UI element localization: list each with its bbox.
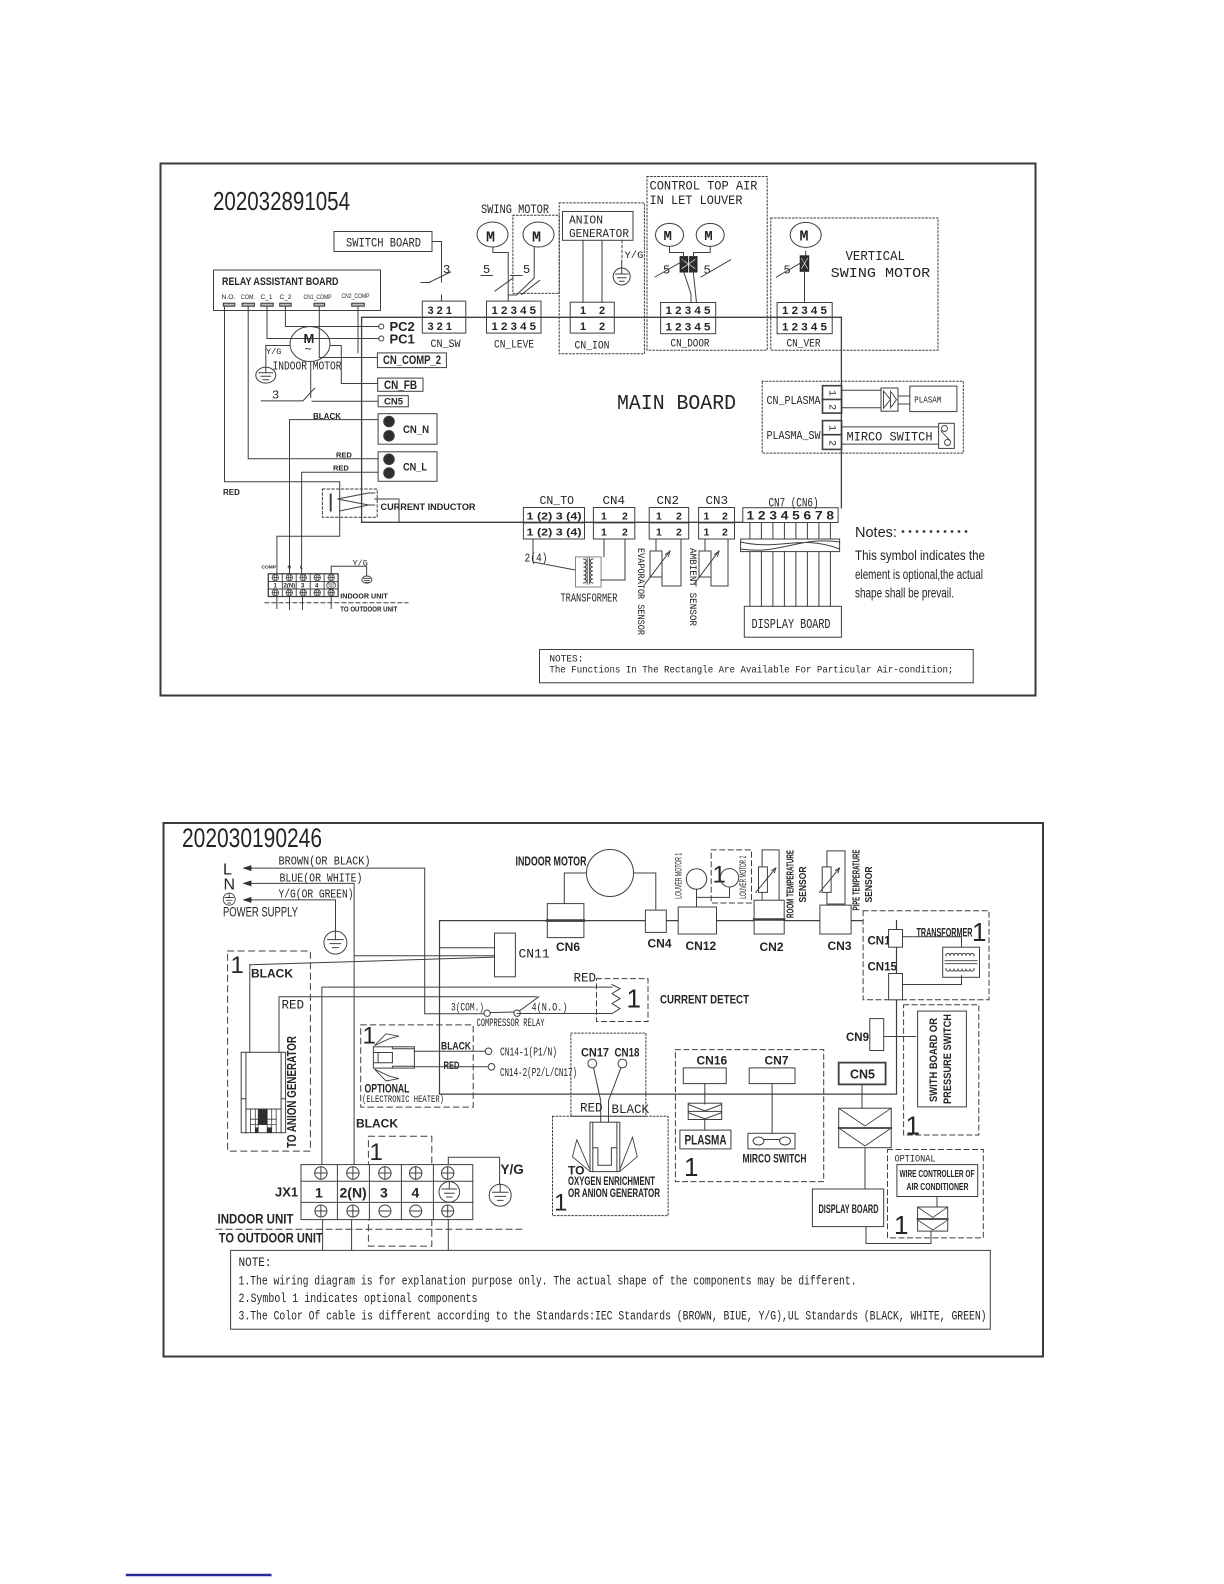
svg-text:AMBIENT SENSOR: AMBIENT SENSOR xyxy=(686,548,698,627)
wire C_1 to PC1 xyxy=(267,306,379,338)
wires louver motors xyxy=(670,247,711,303)
svg-text:DISPLAY BOARD: DISPLAY BOARD xyxy=(752,617,831,633)
svg-text:N: N xyxy=(288,565,292,571)
louver motor 2 optional (dashed) xyxy=(711,850,751,903)
svg-text:N: N xyxy=(224,877,236,894)
wire controller group (dashed) xyxy=(888,1150,984,1238)
svg-text:CN_L: CN_L xyxy=(403,462,427,474)
svg-text:POWER SUPPLY: POWER SUPPLY xyxy=(223,905,298,920)
svg-text:CN2: CN2 xyxy=(657,494,680,508)
svg-text:RED: RED xyxy=(282,999,305,1013)
wire L brown xyxy=(244,868,484,1014)
svg-text:Y/G: Y/G xyxy=(501,1162,524,1177)
svg-text:CN3: CN3 xyxy=(706,494,729,508)
plasma group (dotted) xyxy=(762,381,963,453)
notes box bottom xyxy=(540,650,974,683)
svg-text:COMPRESSOR RELAY: COMPRESSOR RELAY xyxy=(477,1018,545,1030)
svg-text:1: 1 xyxy=(656,527,662,539)
svg-text:M: M xyxy=(532,230,541,247)
svg-text:RED: RED xyxy=(336,451,352,460)
svg-text:2: 2 xyxy=(676,511,682,523)
svg-text:CN1_COMP: CN1_COMP xyxy=(304,294,332,301)
svg-text:TO OUTDOOR UNIT: TO OUTDOOR UNIT xyxy=(340,605,397,614)
anion connector plug xyxy=(241,1052,285,1132)
svg-text:OR ANION GENERATOR: OR ANION GENERATOR xyxy=(568,1186,660,1200)
svg-text:2: 2 xyxy=(722,511,728,523)
main bus horizontal xyxy=(440,920,897,922)
svg-text:CN14-1(P1/N): CN14-1(P1/N) xyxy=(500,1046,557,1060)
wire motor right to CN4 xyxy=(634,873,656,910)
dashed indoor/outdoor separator xyxy=(265,602,408,604)
svg-text:SENSOR: SENSOR xyxy=(798,866,809,903)
svg-text:1 2 3 4 5: 1 2 3 4 5 xyxy=(782,322,827,334)
svg-text:1: 1 xyxy=(231,952,244,979)
wires below jx1 xyxy=(323,1220,449,1251)
wire heater black to CN14-1 xyxy=(414,1050,485,1052)
ground indoor motor xyxy=(256,346,276,384)
vertical swing motor group (dotted) xyxy=(771,218,938,350)
svg-text:SWITCH BOARD: SWITCH BOARD xyxy=(346,236,421,251)
svg-text:TRANSFORMER: TRANSFORMER xyxy=(561,593,618,606)
svg-text:GENERATOR: GENERATOR xyxy=(569,228,629,241)
node PC1 xyxy=(379,336,384,341)
svg-text:INDOOR UNIT: INDOOR UNIT xyxy=(218,1212,295,1227)
svg-text:4: 4 xyxy=(412,1185,420,1201)
svg-text:TRANSFORMER: TRANSFORMER xyxy=(917,928,973,940)
wire CN2_COMP down xyxy=(357,306,359,353)
svg-text:INDOOR MOTOR: INDOOR MOTOR xyxy=(273,361,342,374)
connector CN_ION xyxy=(570,302,614,352)
wire controller stem xyxy=(936,1197,938,1208)
wire N.O. down xyxy=(225,306,340,574)
svg-text:CN3: CN3 xyxy=(828,939,852,953)
svg-text:1: 1 xyxy=(826,425,837,431)
wires CN17 CN18 down xyxy=(594,1068,622,1122)
svg-text:PLASAM: PLASAM xyxy=(914,395,941,406)
wire black anion xyxy=(249,965,251,1053)
svg-text:CURRENT DETECT: CURRENT DETECT xyxy=(660,993,750,1007)
svg-text:1: 1 xyxy=(580,305,586,317)
relay assistant board U2 xyxy=(214,270,381,311)
current detect box (dashed) xyxy=(597,979,649,1022)
svg-text:3: 3 xyxy=(443,263,450,277)
svg-text:LOUVER MOTOR 2: LOUVER MOTOR 2 xyxy=(738,856,749,899)
svg-text:CN2: CN2 xyxy=(760,940,784,954)
svg-text:CURRENT INDUCTOR: CURRENT INDUCTOR xyxy=(381,502,476,513)
svg-text:1: 1 xyxy=(274,583,278,589)
wires vertical swing motor xyxy=(805,251,806,302)
connector CN_N xyxy=(378,414,437,445)
svg-text:1: 1 xyxy=(972,917,986,947)
svg-text:PLASMA: PLASMA xyxy=(685,1133,727,1148)
svg-text:SENSOR: SENSOR xyxy=(864,866,875,903)
connector CN_PLASMA pins xyxy=(823,386,842,413)
ribbon cable marker xyxy=(741,539,840,552)
svg-text:NOTE:: NOTE: xyxy=(239,1256,272,1270)
wires to CN_L xyxy=(302,472,379,574)
svg-text:1: 1 xyxy=(656,511,662,523)
plasma box xyxy=(680,1130,731,1149)
svg-text:COMP: COMP xyxy=(262,565,277,571)
crimp connector vertical xyxy=(800,256,809,271)
wires CN_PLASMA to plasma diode xyxy=(842,390,910,408)
wire C_2 to PC2 xyxy=(285,306,378,326)
svg-text:RED: RED xyxy=(333,464,349,473)
svg-text:IN LET LOUVER: IN LET LOUVER xyxy=(650,194,743,208)
mirco switch element xyxy=(748,1133,795,1149)
note box xyxy=(231,1250,991,1329)
wire heater red to CN14-2 xyxy=(414,1066,488,1068)
ribbon marker display xyxy=(839,1108,892,1148)
svg-text:BLACK: BLACK xyxy=(251,967,293,981)
svg-text:3(COM.): 3(COM.) xyxy=(451,1003,484,1015)
swing motor M1 xyxy=(477,222,508,247)
svg-text:C_2: C_2 xyxy=(280,294,292,301)
svg-text:BLACK: BLACK xyxy=(441,1041,471,1053)
svg-text:CN18: CN18 xyxy=(615,1046,640,1060)
ribbon marker plasma xyxy=(688,1103,722,1119)
svg-text:MIRCO SWITCH: MIRCO SWITCH xyxy=(847,431,933,445)
svg-text:CN12: CN12 xyxy=(686,939,717,953)
svg-text:CN15: CN15 xyxy=(868,962,898,974)
svg-text:CN11: CN11 xyxy=(519,947,550,962)
connector CN_TO xyxy=(523,508,584,540)
svg-text:CN_DOOR: CN_DOOR xyxy=(671,339,710,351)
transformer group (dashed) xyxy=(863,911,989,1000)
svg-text:CONTROL TOP AIR: CONTROL TOP AIR xyxy=(650,180,758,194)
svg-text:TO ANION GENERATOR: TO ANION GENERATOR xyxy=(285,1036,299,1148)
svg-text:RED: RED xyxy=(580,1102,603,1116)
svg-text:2: 2 xyxy=(622,527,628,539)
wire controller box xyxy=(897,1165,978,1197)
svg-text:CN1: CN1 xyxy=(868,936,892,948)
svg-text:3.The Color Of cable is differ: 3.The Color Of cable is different accord… xyxy=(239,1310,987,1324)
svg-text:LOUVER MOTOR 1: LOUVER MOTOR 1 xyxy=(674,853,685,899)
svg-text:CN_ION: CN_ION xyxy=(575,341,610,353)
svg-text:1 2 3 4 5: 1 2 3 4 5 xyxy=(492,321,537,333)
svg-text:1: 1 xyxy=(704,527,710,539)
wire anion black slant to CN11 xyxy=(250,957,495,965)
terminal block screws top xyxy=(272,574,334,580)
svg-text:1: 1 xyxy=(627,984,641,1014)
plasam box xyxy=(910,386,957,412)
svg-text:2(N): 2(N) xyxy=(340,1185,367,1201)
terminal block earth xyxy=(327,582,336,589)
plasma mirco group (dashed) xyxy=(675,1050,823,1182)
svg-text:RELAY ASSISTANT BOARD: RELAY ASSISTANT BOARD xyxy=(222,276,339,288)
node CN14-1 xyxy=(485,1048,492,1055)
footer rule xyxy=(127,1574,270,1576)
bus left vertical xyxy=(440,921,897,1095)
svg-text:Y/G: Y/G xyxy=(266,347,281,357)
wire bus to CN11 xyxy=(440,947,495,949)
wires CN4 to transformer xyxy=(601,539,625,580)
svg-text:M: M xyxy=(704,229,712,245)
svg-text:2: 2 xyxy=(676,527,682,539)
relay board pads xyxy=(223,303,364,306)
wires below terminal block xyxy=(277,597,331,610)
wires anion to CN_ION xyxy=(583,240,602,302)
svg-text:202030190246: 202030190246 xyxy=(182,823,322,853)
svg-text:5: 5 xyxy=(523,263,530,277)
connector CN_DOOR xyxy=(661,303,716,351)
heater plug symbol xyxy=(373,1034,414,1081)
switch board SB xyxy=(334,232,432,252)
wire display board to controller xyxy=(866,1227,931,1244)
transformer T1 xyxy=(576,557,602,587)
compressor relay K1 xyxy=(484,1010,490,1016)
svg-text:CN_SW: CN_SW xyxy=(431,339,461,351)
svg-text:BLACK: BLACK xyxy=(612,1103,650,1117)
svg-text:2: 2 xyxy=(826,440,837,446)
svg-text:BLACK: BLACK xyxy=(356,1117,398,1131)
jx1 earth terminal xyxy=(439,1182,460,1203)
svg-text:BROWN(OR BLACK): BROWN(OR BLACK) xyxy=(279,855,371,869)
louver motor M left xyxy=(656,223,684,246)
louver motor M right xyxy=(696,223,724,246)
svg-text:1: 1 xyxy=(363,1023,376,1050)
svg-text:CN4: CN4 xyxy=(648,937,672,951)
svg-text:RED: RED xyxy=(223,488,240,497)
wire CN16 down xyxy=(704,1084,706,1131)
svg-text:~: ~ xyxy=(305,342,312,356)
pipe temperature sensor xyxy=(827,851,845,904)
svg-text:PIPE TEMPERATURE: PIPE TEMPERATURE xyxy=(852,849,863,910)
display board bottom xyxy=(812,1189,883,1227)
oxygen connector plug xyxy=(573,1122,638,1171)
ground at terminal block xyxy=(331,566,366,576)
mirco switch box xyxy=(842,427,939,444)
oxygen group dotted box lower xyxy=(553,1116,669,1215)
indoor motor M xyxy=(290,327,330,362)
evaporator sensor RT1 xyxy=(655,539,657,551)
svg-text:C_1: C_1 xyxy=(261,294,273,301)
svg-text:PLASMA_SW: PLASMA_SW xyxy=(767,429,822,443)
svg-text:4: 4 xyxy=(315,583,319,589)
svg-text:MAIN BOARD: MAIN BOARD xyxy=(617,393,736,416)
wires CN_TO to transformer xyxy=(533,539,576,570)
svg-text:2.Symbol 1 indicates optional: 2.Symbol 1 indicates optional components xyxy=(239,1292,478,1306)
wire YG green xyxy=(244,900,336,931)
connector CN11 xyxy=(495,933,516,977)
power supply ground symbol xyxy=(223,893,235,905)
terminal block TB1 xyxy=(268,574,338,597)
connector CN_L xyxy=(378,452,437,482)
anion generator box xyxy=(563,212,634,241)
svg-text:CN_LEVE: CN_LEVE xyxy=(494,340,534,352)
svg-text:The Functions In The Rectangle: The Functions In The Rectangle Are Avail… xyxy=(549,665,953,677)
svg-text:CN_TO: CN_TO xyxy=(540,494,575,508)
svg-text:PRESSURE SWITCH: PRESSURE SWITCH xyxy=(942,1014,954,1104)
svg-text:DISPLAY BOARD: DISPLAY BOARD xyxy=(819,1204,879,1216)
anion generator group (dashed) xyxy=(228,951,311,1151)
svg-text:M: M xyxy=(664,229,672,245)
connector CN3 xyxy=(699,508,735,540)
svg-text:CN14-2(P2/L/CN17): CN14-2(P2/L/CN17) xyxy=(500,1066,577,1080)
earth ground circle xyxy=(324,931,347,954)
connector CN12 xyxy=(678,907,716,934)
svg-text:1 2 3 4 5: 1 2 3 4 5 xyxy=(782,305,827,317)
svg-text:1 2 3 4 5: 1 2 3 4 5 xyxy=(492,305,537,317)
connector CN4 xyxy=(645,910,666,932)
transformer symbol T2 xyxy=(943,947,980,977)
svg-text:AIR CONDITIONER: AIR CONDITIONER xyxy=(907,1181,969,1193)
svg-text:1: 1 xyxy=(601,527,607,539)
svg-text:2: 2 xyxy=(722,527,728,539)
svg-text:PC1: PC1 xyxy=(390,332,415,347)
wires swing motors to CN_LEVE xyxy=(493,247,508,301)
control top air in let louver group (dotted) xyxy=(647,177,767,351)
dashed separator bottom xyxy=(216,1228,522,1230)
wire red anion to relay lever xyxy=(279,997,537,1053)
svg-text:SWING MOTOR: SWING MOTOR xyxy=(831,267,931,282)
svg-text:Y/G: Y/G xyxy=(625,250,644,262)
heater optional group (dashed) xyxy=(361,1025,474,1107)
svg-text:CN9: CN9 xyxy=(846,1032,869,1044)
wire yg to ground xyxy=(448,1157,499,1184)
wire switch board to CN_SW xyxy=(432,242,442,302)
connector CN5 xyxy=(839,1063,886,1085)
svg-text:1: 1 xyxy=(370,1139,383,1166)
svg-text:element is optional,the actual: element is optional,the actual xyxy=(855,567,983,582)
svg-text:1 2 3 4 5: 1 2 3 4 5 xyxy=(666,322,711,334)
svg-text:3: 3 xyxy=(301,583,305,589)
svg-text:1: 1 xyxy=(906,1111,920,1141)
svg-text:MIRCO SWITCH: MIRCO SWITCH xyxy=(743,1154,807,1166)
ribbon marker controller xyxy=(918,1207,948,1231)
earth ground circle jx1 xyxy=(489,1184,511,1206)
svg-text:Y/G: Y/G xyxy=(353,559,368,569)
svg-text:2: 2 xyxy=(826,404,837,410)
svg-text:2: 2 xyxy=(599,305,605,317)
svg-text:2: 2 xyxy=(622,511,628,523)
wire COM. down xyxy=(248,306,378,459)
svg-text:CN6: CN6 xyxy=(556,940,580,954)
svg-text:RED: RED xyxy=(574,972,597,986)
svg-text:4(N.O.): 4(N.O.) xyxy=(532,1003,568,1015)
svg-text:OPTIONAL: OPTIONAL xyxy=(895,1154,936,1166)
jx1 optional dashed box xyxy=(368,1136,431,1246)
wire motor down with switch 3 xyxy=(310,362,312,398)
indoor motor M2 xyxy=(587,850,634,897)
svg-text:1: 1 xyxy=(894,1210,908,1240)
wire CN5 down xyxy=(861,1084,863,1108)
svg-text:1 2 3 4 5: 1 2 3 4 5 xyxy=(666,305,711,317)
wire ribbon to display board xyxy=(864,1148,866,1189)
wire to CN_N xyxy=(290,420,379,574)
bus through transformer box xyxy=(896,921,898,1000)
connector CN_SW xyxy=(422,301,466,351)
svg-text:5: 5 xyxy=(483,263,490,277)
svg-text:2: 2 xyxy=(599,321,605,333)
svg-text:VERTICAL: VERTICAL xyxy=(846,250,906,265)
display board xyxy=(744,606,841,637)
svg-text:1.The wiring diagram is for ex: 1.The wiring diagram is for explanation … xyxy=(239,1275,857,1289)
svg-text:CN_VER: CN_VER xyxy=(787,339,821,351)
terminal block JX1 xyxy=(301,1165,473,1220)
svg-text:CN_PLASMA: CN_PLASMA xyxy=(767,394,822,408)
connector CN_VER xyxy=(777,303,832,351)
node CN14-2 xyxy=(488,1064,495,1071)
svg-text:CN2_COMP: CN2_COMP xyxy=(342,293,370,300)
connector CN2 xyxy=(649,508,689,540)
svg-text:INDOOR MOTOR: INDOOR MOTOR xyxy=(516,855,587,869)
connector CN3 xyxy=(820,905,851,934)
anion generator group (dotted) xyxy=(559,203,644,354)
svg-text:ANION: ANION xyxy=(569,215,603,228)
bus right vertical xyxy=(896,921,898,1094)
current inductor L1 xyxy=(322,489,377,517)
frame top diagram xyxy=(161,164,1036,696)
swing motor M2 optional xyxy=(513,215,559,293)
connector CN5 xyxy=(378,396,408,407)
svg-text:COM.: COM. xyxy=(241,294,255,301)
node CN17 xyxy=(588,1059,597,1068)
svg-text:1: 1 xyxy=(580,321,586,333)
ground anion xyxy=(621,240,623,260)
svg-text:3: 3 xyxy=(380,1185,388,1201)
switch contact 3 xyxy=(421,272,451,283)
svg-text:CN_COMP_2: CN_COMP_2 xyxy=(383,355,441,367)
swith board group (dashed) xyxy=(904,1005,979,1135)
swith board or pressure switch box xyxy=(918,1011,967,1107)
svg-text:Notes:: Notes: xyxy=(855,525,897,541)
connector CN7 xyxy=(743,508,838,523)
svg-text:CN7: CN7 xyxy=(765,1054,789,1068)
wire CN1_COMP to CN_COMP_2 xyxy=(319,306,377,357)
svg-text:M: M xyxy=(800,229,809,246)
svg-text:1 (2) 3 (4): 1 (2) 3 (4) xyxy=(527,527,582,539)
connector CN_LEVE xyxy=(487,301,542,351)
svg-text:1 2 3 4 5 6 7 8: 1 2 3 4 5 6 7 8 xyxy=(747,511,835,523)
svg-text:1: 1 xyxy=(684,1152,698,1182)
svg-text:This symbol indicates the: This symbol indicates the xyxy=(855,548,985,563)
room temperature sensor xyxy=(762,850,779,904)
svg-text:WIRE CONTROLLER OF: WIRE CONTROLLER OF xyxy=(900,1168,975,1180)
wires CN7 to ribbon xyxy=(750,523,831,540)
connector CN4 xyxy=(593,508,634,540)
frame bottom diagram xyxy=(164,823,1044,1357)
svg-text:CN17: CN17 xyxy=(581,1046,609,1060)
svg-text:CN_FB: CN_FB xyxy=(384,380,417,392)
wires CN1 CN15 to transformer xyxy=(903,937,962,985)
svg-text:CN5: CN5 xyxy=(850,1068,875,1082)
connector PLASMA_SW pins xyxy=(823,421,842,450)
svg-text:1: 1 xyxy=(704,511,710,523)
connector CN_FB xyxy=(378,378,423,391)
node PC2 xyxy=(379,324,384,329)
svg-text:SWITH BOARD OR: SWITH BOARD OR xyxy=(928,1018,940,1102)
vertical swing motor M xyxy=(790,222,821,247)
svg-text:1: 1 xyxy=(601,511,607,523)
node CN18 xyxy=(618,1059,627,1068)
svg-text:CN4: CN4 xyxy=(603,494,626,508)
wires ribbon to display board xyxy=(750,552,831,607)
svg-text:3 2 1: 3 2 1 xyxy=(428,305,452,317)
svg-text:L: L xyxy=(300,565,303,571)
svg-text:shape shall be prevail.: shape shall be prevail. xyxy=(855,586,954,601)
svg-text:2(4): 2(4) xyxy=(525,553,548,566)
svg-text:1 (2) 3 (4): 1 (2) 3 (4) xyxy=(527,511,582,523)
svg-text:(ELECTRONIC HEATER): (ELECTRONIC HEATER) xyxy=(362,1094,444,1106)
connector CN2 xyxy=(754,900,784,934)
wire N blue xyxy=(244,883,495,1164)
svg-text:N.O.: N.O. xyxy=(222,294,236,301)
wire resistor to relay NO xyxy=(517,1013,612,1015)
svg-text:EVAPORATOR SENSOR: EVAPORATOR SENSOR xyxy=(634,548,646,636)
svg-text:2(N): 2(N) xyxy=(284,583,296,589)
wire inductor to board edge xyxy=(375,499,399,522)
